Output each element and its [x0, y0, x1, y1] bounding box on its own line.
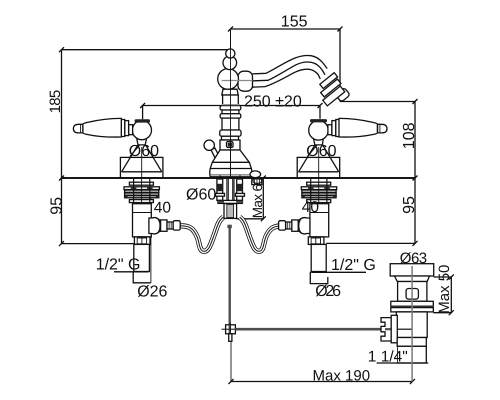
- right valve mounting stack: [301, 179, 336, 204]
- left valve body tube: [133, 204, 152, 237]
- right stack slabs: [307, 182, 331, 185]
- left handle collar rings: [125, 121, 129, 136]
- svg-text:40: 40: [302, 199, 320, 216]
- svg-text:185: 185: [47, 90, 64, 113]
- wire: Max 190 dimension line: [231, 381, 412, 383]
- drain washers: [391, 301, 434, 306]
- wire: Max 60 extension line: [237, 218, 264, 220]
- wire: right diam 26 bracket: [310, 272, 328, 284]
- wire: Max 50 extension lines: [434, 276, 452, 278]
- right handle tip knob: [378, 124, 387, 133]
- center shank stud nuts: [217, 184, 223, 191]
- gray 250 dim line crossing column: [222, 104, 241, 106]
- svg-text:Ø60: Ø60: [129, 143, 159, 160]
- spout outlet band 3: [323, 86, 345, 106]
- wire: left 95 extension line: [62, 243, 134, 245]
- wire: Max 190 left extension line: [230, 342, 232, 382]
- right valve body tube: [310, 204, 329, 237]
- right handle base escutcheon: [297, 157, 340, 178]
- spout bell base: [210, 150, 252, 177]
- right handle lever body: [339, 118, 377, 137]
- spout top finial ball: [226, 49, 235, 58]
- left valve inlet tail pipe: [134, 244, 150, 271]
- right valve lock nut: [308, 237, 324, 245]
- spout body ball with side outlet: [238, 71, 253, 91]
- left handle tip knob: [73, 124, 82, 133]
- drain flange: [390, 264, 434, 276]
- right valve hose nipple: [286, 222, 292, 229]
- spout outlet aerator tip: [320, 73, 350, 106]
- rod end inside tube: [397, 328, 411, 330]
- right handle ball cap: [310, 119, 327, 122]
- wire: right 95 extension line: [326, 242, 415, 244]
- left stack slabs: [129, 182, 153, 185]
- wire: Max 50 dimension line: [450, 277, 452, 313]
- drain neck: [395, 276, 430, 282]
- svg-text:Max 60: Max 60: [250, 178, 265, 219]
- left handle neck: [137, 139, 147, 145]
- pop-up rod coupler: [226, 325, 236, 334]
- right handle stem: [328, 125, 332, 135]
- svg-text:Max 50: Max 50: [436, 265, 453, 314]
- wire: 108 dimension line: [414, 102, 416, 179]
- column upper section: [223, 95, 239, 105]
- drain assembly: [377, 264, 434, 382]
- center shank flange bar: [218, 200, 242, 203]
- right flexible hose: [240, 217, 283, 251]
- svg-text:Ø60: Ø60: [306, 143, 336, 160]
- svg-text:Ø26: Ø26: [137, 284, 167, 301]
- wire: 250 +-20 dimension line: [143, 106, 320, 120]
- right valve inlet tail pipe: [311, 244, 326, 271]
- left valve mounting stack: [124, 179, 159, 204]
- spout column center axis: [230, 29, 232, 178]
- svg-text:Ø60: Ø60: [186, 187, 216, 204]
- spout main body ball: [218, 69, 239, 90]
- wire: right 95 dimension line: [414, 178, 416, 243]
- right handle ball joint: [309, 121, 329, 141]
- svg-text:95: 95: [48, 197, 65, 215]
- svg-text:1/2" G: 1/2" G: [331, 257, 376, 274]
- left valve hose nipple: [167, 222, 173, 229]
- left valve lock nut: [134, 237, 150, 245]
- left handle assembly: [73, 118, 162, 178]
- svg-text:1 1/4": 1 1/4": [368, 348, 408, 365]
- left handle lever body: [83, 118, 121, 137]
- svg-text:95: 95: [401, 196, 418, 214]
- DIMS: [62, 29, 452, 382]
- drain center line: [411, 266, 413, 381]
- right handle assembly: [297, 118, 387, 178]
- 1 1/4 underline: [377, 362, 429, 364]
- bell base bottom plate: [210, 174, 250, 176]
- deck oval grommet: [250, 171, 261, 178]
- dimension ticks: [59, 27, 454, 385]
- right handle neck: [314, 139, 324, 145]
- wire: right 1/2 G leader: [311, 271, 366, 273]
- wire: 155 dimension line: [231, 29, 341, 102]
- svg-text:Ø26: Ø26: [315, 283, 341, 300]
- spout neck under ball: [220, 89, 241, 140]
- pop-up knob lever: [211, 148, 220, 159]
- center shank studs: [216, 179, 245, 201]
- svg-text:Ø63: Ø63: [400, 250, 427, 267]
- pop-up rod: [227, 225, 231, 325]
- column ring sections: [220, 106, 241, 110]
- left handle base escutcheon: [120, 157, 162, 178]
- left handle stem: [129, 125, 133, 135]
- left flexible hose: [181, 217, 224, 251]
- svg-text:40: 40: [154, 199, 172, 216]
- drain castellated nut: [381, 318, 391, 341]
- gray mid line through ball: [222, 80, 253, 82]
- cartridge housing U1: [220, 140, 240, 150]
- right valve compression nut: [292, 220, 298, 231]
- wire: left diam 26 bracket: [133, 272, 151, 283]
- drain tail tube: [397, 346, 426, 363]
- left valve stud bolts: [133, 179, 135, 203]
- wire: top extension line to faucet top: [62, 49, 231, 51]
- right valve hex connection: [298, 218, 310, 234]
- deck mounting surface line: [62, 177, 416, 179]
- center supply block: [224, 204, 237, 219]
- drain body: [398, 282, 427, 302]
- grommet shank below deck: [252, 179, 262, 185]
- spout outlet band 1: [320, 73, 338, 89]
- deck line redraw over bases: [62, 177, 416, 179]
- left handle ball cap: [135, 119, 150, 122]
- wire: left 1/2 G leader: [114, 271, 149, 273]
- left valve hex connection: [149, 218, 161, 234]
- svg-text:250 ±20: 250 ±20: [244, 94, 302, 111]
- wire: 108 extension line: [340, 101, 415, 103]
- svg-text:1/2" G: 1/2" G: [96, 257, 141, 274]
- spout tube: [252, 56, 327, 74]
- svg-text:Max 190: Max 190: [313, 368, 371, 385]
- svg-text:108: 108: [401, 122, 418, 149]
- center shank tube: [226, 179, 228, 201]
- drain tube mid section: [397, 338, 426, 347]
- wire: 185 dimension line: [61, 50, 63, 178]
- left handle ball joint: [132, 121, 151, 140]
- coupler lower stub: [229, 334, 232, 342]
- svg-text:155: 155: [281, 14, 308, 31]
- spout center axis redraw: [230, 29, 232, 177]
- left valve compression nut: [161, 220, 167, 231]
- spout middle ball: [223, 56, 237, 70]
- drain upper tube: [396, 312, 427, 338]
- spout outlet band 2: [321, 79, 341, 97]
- right handle collar rings: [332, 121, 336, 136]
- right valve stud bolts: [310, 179, 312, 203]
- wire: Max 60 dimension line: [262, 178, 264, 220]
- wire: left 95 dimension line: [61, 178, 63, 244]
- spout center axis over base: [230, 150, 232, 177]
- horizontal drain linkage rod: [235, 328, 381, 331]
